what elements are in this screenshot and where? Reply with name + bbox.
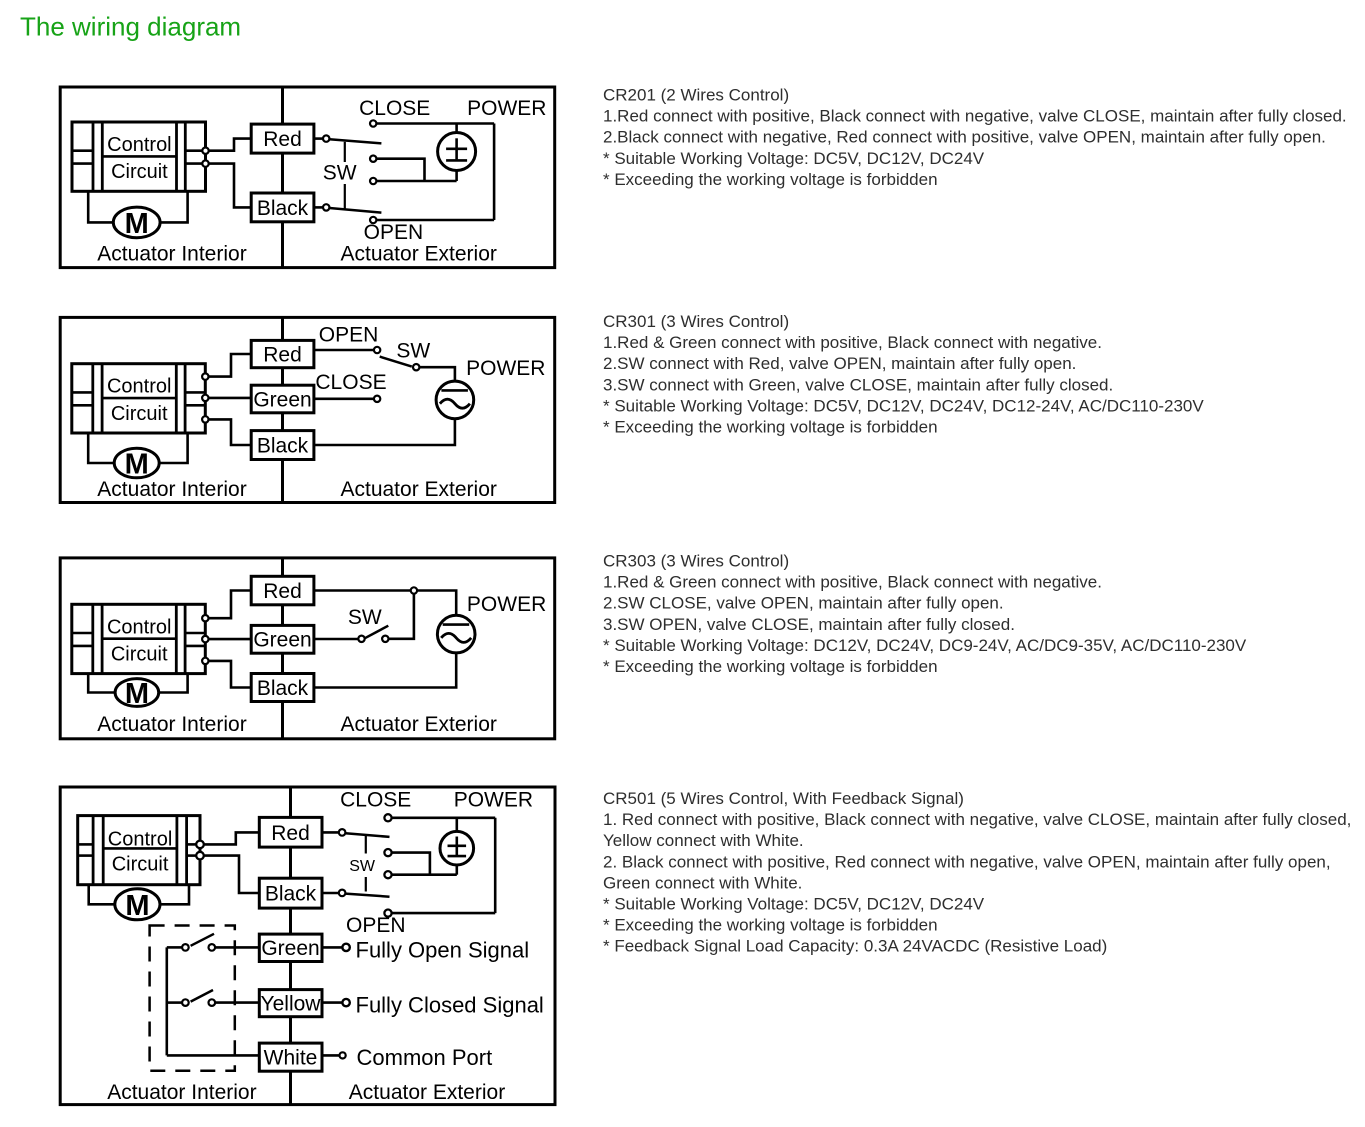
switch blade upper bbox=[329, 139, 381, 143]
terminal node 1 bbox=[202, 615, 208, 621]
wire terminal2 to Green box bbox=[209, 397, 252, 400]
svg-text:Control: Control bbox=[107, 134, 171, 156]
svg-text:Circuit: Circuit bbox=[112, 854, 169, 876]
svg-text:POWER: POWER bbox=[467, 97, 546, 120]
control circuit block (CR303) bbox=[72, 604, 206, 673]
wire from control block to motor left (CR501) bbox=[89, 885, 117, 905]
power source bar bbox=[443, 623, 470, 626]
terminal node 2 bbox=[202, 636, 208, 642]
control circuit block (CR301) bbox=[72, 364, 206, 433]
wire middle lower contact to battery negative bbox=[392, 873, 457, 876]
switch blade bbox=[365, 626, 388, 639]
AC/DC power source (CR303 POWER) bbox=[437, 615, 475, 653]
wire terminal3 to Black box bbox=[209, 661, 252, 688]
switch blade upper bbox=[345, 833, 389, 837]
wire from control block to motor left (CR303) bbox=[88, 674, 117, 693]
svg-text:1.Red connect with positive, B: 1.Red connect with positive, Black conne… bbox=[603, 107, 1347, 126]
terminal strip vertical bars bbox=[91, 604, 94, 673]
Red wire label box bbox=[251, 340, 314, 367]
wire White box to common port node bbox=[322, 1054, 340, 1057]
svg-text:CR303 (3 Wires Control): CR303 (3 Wires Control) bbox=[603, 552, 789, 571]
svg-text:Actuator Interior: Actuator Interior bbox=[107, 1081, 256, 1104]
svg-text:M: M bbox=[125, 678, 149, 710]
svg-text:2.SW connect with Red, valve O: 2.SW connect with Red, valve OPEN, maint… bbox=[603, 354, 1076, 373]
wire from control block to motor left (CR301) bbox=[88, 433, 116, 463]
Red wire label box bbox=[251, 124, 314, 153]
common port node bbox=[340, 1052, 346, 1058]
wire terminal3 to Black box bbox=[209, 419, 252, 445]
switch left contact bbox=[358, 636, 364, 642]
wire Red box top to frame bbox=[281, 558, 284, 576]
outer frame CR201 bbox=[60, 87, 555, 268]
control/circuit divider bbox=[102, 637, 176, 640]
svg-text:* Suitable Working Voltage: DC: * Suitable Working Voltage: DC5V, DC12V,… bbox=[603, 396, 1204, 415]
wire Black box to Green box bbox=[289, 908, 292, 934]
svg-text:SW: SW bbox=[396, 339, 430, 362]
wire Green box to Black box bbox=[281, 653, 284, 673]
wire junction to switch bbox=[389, 594, 414, 639]
svg-text:Control: Control bbox=[107, 616, 171, 638]
svg-text:Yellow connect with White.: Yellow connect with White. bbox=[603, 831, 804, 850]
switch SW pole contact (Black) bbox=[339, 890, 346, 897]
svg-text:2. Black connect with positive: 2. Black connect with positive, Red conn… bbox=[603, 852, 1331, 871]
motor M (CR201) bbox=[113, 207, 160, 238]
svg-text:Red: Red bbox=[263, 580, 302, 603]
terminal strip vertical bars bbox=[91, 364, 94, 433]
wire Red box to Green box bbox=[281, 368, 284, 386]
junction node bbox=[411, 587, 417, 593]
terminal strip vertical bars bbox=[92, 816, 95, 885]
battery negative lead bbox=[455, 865, 458, 875]
svg-text:Actuator Interior: Actuator Interior bbox=[97, 478, 246, 501]
svg-text:Control: Control bbox=[108, 829, 172, 851]
wire OPEN contact to power rail bbox=[376, 219, 494, 222]
wire from control block to motor right (CR301) bbox=[157, 433, 187, 463]
outer frame CR301 bbox=[60, 317, 555, 502]
control circuit block (CR501) bbox=[78, 816, 200, 885]
wire Green box to switch bbox=[314, 638, 358, 641]
common bus vertical wire bbox=[166, 947, 169, 1055]
wire terminal to Red box bbox=[209, 139, 252, 151]
svg-text:Green connect with White.: Green connect with White. bbox=[603, 873, 802, 892]
interior/exterior divider bbox=[281, 317, 284, 502]
switch blade bbox=[380, 357, 412, 367]
power rail right vertical bbox=[493, 124, 496, 221]
right terminal stubs bbox=[185, 632, 205, 635]
fully open limit switch blade bbox=[191, 934, 214, 946]
wire Green box to Black box bbox=[281, 413, 284, 431]
wire Red box to OPEN contact bbox=[314, 349, 374, 352]
Black wire label box bbox=[251, 193, 314, 222]
outer frame CR501 bbox=[60, 787, 555, 1105]
svg-text:Yellow: Yellow bbox=[261, 993, 322, 1016]
wire Black box to power source bbox=[314, 418, 455, 445]
svg-text:Green: Green bbox=[261, 937, 319, 960]
wire Red box to power source bbox=[314, 591, 456, 616]
Black wire label box bbox=[259, 878, 322, 908]
wire Red box top to frame bbox=[289, 787, 292, 817]
svg-text:SW: SW bbox=[323, 161, 357, 184]
terminal node upper bbox=[196, 841, 204, 849]
wire middle upper contact bbox=[376, 159, 424, 181]
svg-text:Fully Closed Signal: Fully Closed Signal bbox=[356, 993, 544, 1018]
right terminal stubs bbox=[185, 391, 205, 394]
Black wire label box bbox=[251, 674, 314, 702]
motor M (CR303) bbox=[115, 679, 159, 707]
wire terminal2 to Green box bbox=[209, 638, 252, 641]
svg-text:Actuator Interior: Actuator Interior bbox=[97, 713, 246, 736]
svg-text:SW: SW bbox=[348, 606, 382, 629]
svg-text:White: White bbox=[264, 1047, 318, 1070]
switch mechanical link bbox=[344, 142, 346, 162]
svg-text:M: M bbox=[125, 449, 149, 481]
fully open limit switch right contact bbox=[209, 944, 216, 951]
Black wire label box bbox=[251, 431, 314, 460]
svg-text:* Exceeding the working voltag: * Exceeding the working voltage is forbi… bbox=[603, 418, 938, 437]
wire bus to fully-closed switch bbox=[167, 1001, 182, 1004]
svg-text:* Suitable Working Voltage: DC: * Suitable Working Voltage: DC5V, DC12V,… bbox=[603, 895, 985, 914]
svg-text:Actuator Exterior: Actuator Exterior bbox=[349, 1081, 505, 1104]
svg-text:* Suitable Working Voltage: DC: * Suitable Working Voltage: DC5V, DC12V,… bbox=[603, 149, 985, 168]
wire CLOSE contact to power rail bbox=[376, 122, 494, 125]
svg-text:POWER: POWER bbox=[454, 789, 533, 812]
Green wire label box bbox=[259, 934, 322, 961]
wire middle lower contact to battery negative bbox=[376, 180, 456, 183]
wire Red box to Green box bbox=[281, 605, 284, 626]
svg-text:2.SW CLOSE, valve OPEN, mainta: 2.SW CLOSE, valve OPEN, maintain after f… bbox=[603, 594, 1004, 613]
svg-text:M: M bbox=[125, 208, 149, 240]
svg-text:Black: Black bbox=[265, 883, 317, 906]
svg-text:CLOSE: CLOSE bbox=[359, 97, 430, 120]
svg-text:Black: Black bbox=[257, 435, 309, 458]
motor M (CR501) bbox=[115, 889, 160, 920]
svg-text:Black: Black bbox=[257, 677, 309, 700]
White wire label box bbox=[259, 1043, 322, 1071]
switch SW pole contact (Red) bbox=[323, 135, 329, 141]
contact OPEN bbox=[370, 217, 376, 223]
svg-text:* Exceeding the working voltag: * Exceeding the working voltage is forbi… bbox=[603, 170, 938, 189]
wire from control block to motor right (CR501) bbox=[158, 885, 189, 905]
svg-text:OPEN: OPEN bbox=[319, 323, 379, 346]
svg-text:2.Black connect with negative,: 2.Black connect with negative, Red conne… bbox=[603, 128, 1326, 147]
svg-text:Actuator Exterior: Actuator Exterior bbox=[340, 243, 496, 266]
svg-text:* Exceeding the working voltag: * Exceeding the working voltage is forbi… bbox=[603, 916, 938, 935]
fully closed limit switch blade bbox=[191, 990, 213, 1002]
left terminal stubs bbox=[78, 843, 93, 846]
svg-text:1.Red & Green connect with pos: 1.Red & Green connect with positive, Bla… bbox=[603, 333, 1102, 352]
power source bar bbox=[441, 389, 468, 392]
switch SW pole contact (Red) bbox=[339, 829, 346, 836]
wire White box to frame bottom bbox=[289, 1071, 292, 1104]
contact middle lower bbox=[384, 871, 391, 878]
wire bus to fully-open switch bbox=[167, 946, 182, 949]
limit switch dashed enclosure bbox=[150, 926, 235, 1071]
contact CLOSE bbox=[384, 814, 391, 821]
svg-text:1.Red & Green connect with pos: 1.Red & Green connect with positive, Bla… bbox=[603, 573, 1102, 592]
Green wire label box bbox=[251, 625, 314, 653]
wire Green box to Yellow box bbox=[289, 962, 292, 990]
control/circuit divider bbox=[102, 155, 176, 158]
terminal node 2 bbox=[202, 395, 208, 401]
contact OPEN bbox=[384, 910, 391, 917]
svg-text:Red: Red bbox=[263, 128, 302, 151]
control/circuit divider bbox=[103, 847, 177, 850]
wire Green box to CLOSE contact bbox=[314, 397, 374, 400]
Red wire label box bbox=[251, 576, 314, 605]
contact CLOSE (SW) bbox=[374, 396, 380, 402]
battery positive lead bbox=[455, 818, 458, 832]
svg-text:Common Port: Common Port bbox=[357, 1045, 493, 1070]
fully open signal node bbox=[342, 944, 349, 951]
wire CLOSE contact to power rail bbox=[392, 816, 496, 819]
svg-text:SW: SW bbox=[349, 858, 376, 875]
right terminal stubs bbox=[185, 149, 205, 152]
Red wire label box bbox=[259, 817, 322, 847]
svg-text:Circuit: Circuit bbox=[111, 161, 168, 183]
Yellow wire label box bbox=[259, 990, 322, 1017]
svg-text:Circuit: Circuit bbox=[111, 644, 168, 666]
control circuit block (CR201) bbox=[72, 122, 206, 191]
svg-text:Red: Red bbox=[263, 343, 302, 366]
wire OPEN contact to power rail bbox=[392, 912, 496, 915]
svg-text:POWER: POWER bbox=[467, 593, 546, 616]
svg-text:* Exceeding the working voltag: * Exceeding the working voltage is forbi… bbox=[603, 657, 938, 676]
svg-text:CLOSE: CLOSE bbox=[340, 789, 411, 812]
power rail right vertical bbox=[494, 818, 497, 913]
wire Green box to signal node bbox=[322, 946, 342, 949]
battery positive lead bbox=[455, 124, 458, 134]
wire terminal1 to Red box bbox=[209, 354, 252, 377]
interior/exterior divider bbox=[289, 787, 292, 1105]
contact CLOSE bbox=[370, 120, 376, 126]
svg-text:Actuator Exterior: Actuator Exterior bbox=[340, 478, 496, 501]
contact middle upper bbox=[384, 849, 391, 856]
wire terminal1 to Red box bbox=[209, 591, 252, 619]
switch mechanical link bbox=[365, 836, 367, 854]
wire switch to power source bbox=[419, 367, 455, 381]
battery power source (CR201 POWER) bbox=[438, 133, 476, 171]
svg-text:* Suitable Working Voltage: DC: * Suitable Working Voltage: DC12V, DC24V… bbox=[603, 636, 1247, 655]
switch blade lower bbox=[329, 208, 381, 213]
interior/exterior divider bbox=[281, 558, 284, 739]
wire from control block to motor right (CR201) bbox=[158, 191, 188, 222]
svg-text:Control: Control bbox=[107, 376, 171, 398]
svg-text:Actuator Exterior: Actuator Exterior bbox=[340, 713, 496, 736]
wire Red box to Black box bbox=[289, 847, 292, 878]
switch blade lower bbox=[345, 894, 389, 897]
wire Black box to frame bottom bbox=[281, 460, 284, 503]
svg-text:* Feedback Signal Load Capacit: * Feedback Signal Load Capacity: 0.3A 24… bbox=[603, 937, 1107, 956]
svg-text:Fully Open Signal: Fully Open Signal bbox=[356, 937, 530, 962]
svg-text:Green: Green bbox=[253, 388, 311, 411]
svg-text:1. Red connect with positive,: 1. Red connect with positive, Black conn… bbox=[603, 810, 1351, 829]
svg-text:OPEN: OPEN bbox=[346, 914, 406, 937]
svg-text:The wiring diagram: The wiring diagram bbox=[20, 12, 241, 42]
terminal node lower bbox=[202, 160, 208, 166]
wire bus to White box bbox=[167, 1054, 259, 1057]
wire terminal to Black box bbox=[204, 856, 259, 893]
terminal node upper bbox=[202, 148, 208, 154]
wire terminal to Black box bbox=[209, 164, 252, 208]
svg-text:CR501 (5 Wires Control, With F: CR501 (5 Wires Control, With Feedback Si… bbox=[603, 789, 964, 808]
terminal node 3 bbox=[202, 658, 208, 664]
svg-text:POWER: POWER bbox=[466, 357, 545, 380]
fully open limit switch left contact bbox=[182, 944, 189, 951]
battery power source (CR501 POWER) bbox=[440, 831, 474, 865]
wire from control block to motor right (CR303) bbox=[157, 674, 188, 693]
switch SW pole contact (Black) bbox=[323, 204, 329, 210]
svg-text:CR201 (2 Wires Control): CR201 (2 Wires Control) bbox=[603, 86, 789, 105]
svg-text:CLOSE: CLOSE bbox=[315, 371, 386, 394]
wire Red box to Black box bbox=[281, 153, 284, 193]
left terminal stubs bbox=[72, 391, 93, 394]
control/circuit divider bbox=[102, 397, 176, 400]
wire from control block to motor left (CR201) bbox=[88, 191, 115, 222]
svg-text:Circuit: Circuit bbox=[111, 403, 168, 425]
terminal strip vertical bars bbox=[92, 122, 95, 191]
wire Black box to frame bottom bbox=[281, 702, 284, 739]
plus/minus symbol bbox=[455, 837, 458, 856]
svg-text:Actuator Interior: Actuator Interior bbox=[97, 243, 246, 266]
contact middle upper bbox=[370, 156, 376, 162]
interior/exterior divider bbox=[281, 87, 284, 268]
wire Black box to power source bbox=[314, 653, 456, 688]
svg-text:Black: Black bbox=[257, 197, 309, 220]
plus/minus symbol bbox=[455, 138, 458, 159]
svg-text:CR301 (3 Wires Control): CR301 (3 Wires Control) bbox=[603, 312, 789, 331]
fully closed limit switch right contact bbox=[209, 999, 216, 1006]
wire Red box top to frame bbox=[281, 317, 284, 340]
battery negative lead bbox=[455, 170, 458, 181]
svg-text:Green: Green bbox=[253, 629, 311, 652]
svg-text:3.SW OPEN, valve CLOSE, mainta: 3.SW OPEN, valve CLOSE, maintain after f… bbox=[603, 615, 1015, 634]
fully closed limit switch left contact bbox=[182, 999, 189, 1006]
wire Red box to switch pole bbox=[322, 831, 339, 834]
svg-text:3.SW connect with Green, valve: 3.SW connect with Green, valve CLOSE, ma… bbox=[603, 375, 1113, 394]
sine wave symbol bbox=[440, 399, 470, 408]
wire switch to Green box bbox=[215, 946, 259, 949]
wire Black box to switch pole bbox=[314, 206, 323, 209]
svg-text:Red: Red bbox=[271, 822, 310, 845]
switch common contact bbox=[413, 364, 419, 370]
fully closed signal node bbox=[342, 999, 349, 1006]
AC/DC power source (CR301 POWER) bbox=[436, 381, 474, 419]
terminal node 1 bbox=[202, 373, 208, 379]
wire middle upper contact bbox=[392, 853, 430, 875]
terminal node 3 bbox=[202, 416, 208, 422]
wire terminal to Red box bbox=[204, 832, 259, 844]
wire switch to Yellow box bbox=[215, 1001, 259, 1004]
outer frame CR303 bbox=[60, 558, 555, 739]
left terminal stubs bbox=[72, 149, 93, 152]
svg-text:OPEN: OPEN bbox=[364, 221, 424, 244]
wire Red box to switch pole bbox=[314, 137, 323, 140]
contact middle lower bbox=[370, 178, 376, 184]
right terminal stubs bbox=[187, 843, 200, 846]
wire Yellow box to signal node bbox=[322, 1001, 342, 1004]
left terminal stubs bbox=[72, 632, 93, 635]
contact OPEN (SW) bbox=[374, 347, 380, 353]
svg-text:M: M bbox=[125, 890, 149, 922]
wire Black box to switch pole bbox=[322, 892, 339, 895]
terminal node lower bbox=[196, 852, 204, 860]
wire Yellow box to White box bbox=[289, 1017, 292, 1043]
sine wave symbol bbox=[441, 633, 471, 642]
motor M (CR301) bbox=[114, 448, 159, 478]
Green wire label box bbox=[251, 385, 314, 413]
switch right contact bbox=[382, 636, 388, 642]
